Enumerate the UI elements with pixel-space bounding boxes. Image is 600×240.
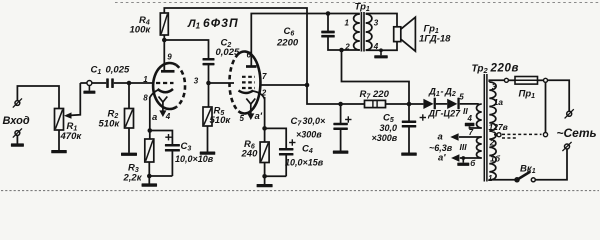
wire R3 bottom node [149,162,172,184]
label + C4 [289,142,295,144]
svg-text:470к: 470к [60,131,83,142]
node selector point 220в [504,78,508,82]
svg-text:127в: 127в [489,122,508,132]
capacitor C4 10,0x15в electrolytic [279,148,294,176]
svg-text:510к: 510к [210,115,232,126]
diode Д1 [423,98,436,110]
triode grid [156,82,174,84]
svg-text:1: 1 [488,174,493,183]
ground R3 [142,183,158,186]
svg-text:2: 2 [261,89,267,98]
pentode filament [246,99,255,105]
wire input top terminal to R1 top [17,86,59,109]
svg-text:2: 2 [489,139,495,148]
svg-text:×300в: ×300в [296,130,322,140]
wire anode junction to C2 [164,40,208,58]
node junction C6 top [326,11,331,16]
svg-text:б: б [470,159,476,168]
svg-text:220: 220 [372,89,390,100]
resistor R7 220 [365,100,386,107]
wire R4 to triode anode pin 9 [163,35,165,64]
svg-text:~6,3в: ~6,3в [429,143,453,153]
triode Л1a envelope [153,63,185,109]
ground Тр1 secondary [380,50,382,55]
svg-text:10,0×10в: 10,0×10в [175,154,214,164]
tap 127в wire [494,134,497,136]
wire R6 bottom node [265,163,287,185]
svg-text:10,0×15в: 10,0×15в [285,158,324,168]
capacitor C6 2200 [321,14,360,51]
svg-text:С6: С6 [284,26,295,38]
node junction R3/C3 bottom [147,174,152,179]
label C7 30,0х [291,116,327,128]
filament lead a pin 4 arrow [162,102,164,111]
svg-text:4: 4 [467,114,473,123]
label Тр2 220в [472,63,520,76]
node junction pin7/B+ vertical [305,83,310,88]
svg-text:III: III [460,142,468,152]
ground R6 [257,184,273,187]
pentode grids [242,77,255,88]
transformer Тр1 primary winding [354,14,360,50]
svg-text:С7: С7 [291,116,303,128]
potentiometer R1 470к [55,109,64,131]
svg-text:ДГ-Ц27: ДГ-Ц27 [428,109,462,119]
label Л1 6Ф3П [187,16,239,31]
svg-text:-: - [441,87,444,97]
svg-text:2200: 2200 [276,38,299,49]
node mains terminal 1 [567,111,572,116]
transformer Тр1 core [361,12,364,52]
ground winding III pin 6 [462,158,464,163]
wiper arrow R1 [64,83,80,119]
svg-text:×300в: ×300в [372,133,398,143]
svg-text:Вк1: Вк1 [520,164,536,176]
label + C3 [165,136,171,138]
resistor R6 240 [260,142,269,163]
transformer Тр1 secondary winding [366,14,372,50]
wire Тр1 secondary to speaker top [366,14,397,27]
node junction cathode/C4 [262,126,267,131]
svg-text:7: 7 [469,128,474,137]
label Д1-Д2 [428,87,456,99]
svg-text:30,0×: 30,0× [303,116,327,126]
ground input [11,143,24,146]
triode cathode [150,89,173,98]
wire selector drop to 127в plug [545,82,547,132]
node junction C1/R2/grid [127,81,132,86]
svg-text:100к: 100к [130,25,152,36]
node junction C7 [338,102,343,107]
svg-text:1: 1 [143,75,148,84]
wire Тр2 pin 3 to fuse [489,80,515,82]
wire junction to R2 [128,83,130,109]
wire cathode pin 8 to R3 [149,97,151,139]
svg-text:30,0: 30,0 [380,123,398,133]
svg-text:С3: С3 [181,141,192,153]
node junction winding III ground [461,156,465,160]
wire cathode pin 2 down to R6 [264,97,266,142]
svg-text:1ГД-18: 1ГД-18 [419,34,451,45]
node mains terminal 2 [565,144,570,149]
svg-text:С4: С4 [302,144,313,156]
ground winding II pin 4 [465,123,475,127]
label C1 0,025 [91,65,130,77]
node input terminal top [13,98,22,107]
pentode cathode [239,91,265,100]
capacitor C5 30,0x300в electrolytic [402,104,417,153]
capacitor C7 30,0x300в electrolytic [333,104,348,151]
capacitor C3 10,0x10в electrolytic [165,144,180,176]
svg-text:Тр1: Тр1 [355,2,370,14]
node junction C6 bottom / Тр1 pin 2 [339,48,344,53]
switch Вк1 [515,172,535,182]
resistor R4 100к [160,13,168,35]
resistor R2 510к [125,109,134,129]
resistor R3 2,2к [145,139,154,162]
node junction R6/C4 bottom [262,174,267,179]
node plug at 127в link [543,133,547,137]
ground R2 [121,153,137,156]
svg-text:3: 3 [374,19,379,28]
ground C5 [401,153,417,156]
svg-text:6: 6 [247,51,252,60]
svg-text:R7: R7 [360,89,372,101]
node junction cathode/C3 [148,128,153,133]
svg-text:1а: 1а [494,97,504,107]
label + C5 [420,117,426,119]
wire input bottom terminal to ground [16,136,18,144]
svg-text:7: 7 [262,72,267,81]
svg-text:0,025: 0,025 [106,65,130,76]
loudspeaker Гр1 1ГД-18 [394,17,416,51]
wire pentode anode pin 6 to Тр1 pin 1 [251,14,359,67]
svg-text:a: a [152,112,157,123]
wire Тр1 secondary to speaker bottom [366,42,397,51]
transformer Тр2 winding III filament 6,3в [477,137,482,158]
svg-text:510к: 510к [99,119,121,130]
resistor R5 510к [203,83,212,126]
label Тр1 [355,2,370,14]
wire winding III top arrow a [450,133,481,140]
svg-text:240: 240 [241,149,259,160]
wire R5 bottom to ground [207,126,209,152]
node junction secondary ground [379,48,383,52]
svg-text:5: 5 [240,114,245,123]
node selector plug after fuse [544,78,548,82]
svg-text:Вход: Вход [3,115,30,127]
wire fuse to mains terminal 1 [538,80,570,111]
svg-text:6Ф3П: 6Ф3П [203,16,239,30]
wire R2 bottom to ground [128,128,130,153]
label R7 220 [360,89,390,101]
wire screen grid pin 7 to B+ [262,84,308,86]
svg-text:8: 8 [143,94,148,103]
fuse Пр1 [515,77,538,85]
svg-text:4: 4 [165,112,171,121]
ground R1 [51,150,67,153]
triode filament [159,97,168,103]
wire junction to triode grid pin 1 [129,82,154,84]
capacitor C2 0,025 [203,58,215,83]
svg-text:2: 2 [344,43,350,52]
diode Д2 [447,98,459,110]
svg-text:~Сеть: ~Сеть [557,126,597,140]
svg-text:5: 5 [459,93,464,102]
capacitor C1 0,025 [92,78,129,88]
svg-text:1б: 1б [490,154,501,164]
wire B+ bus top [164,8,340,104]
svg-text:С1: С1 [91,65,102,77]
node input terminal bottom [13,128,22,137]
wire winding III bottom arrow a' [451,154,482,161]
wire filter line [341,103,409,105]
svg-text:2,2к: 2,2к [123,173,143,184]
svg-text:Пр1: Пр1 [519,89,536,101]
wire winding II pin 4 to chassis [470,126,482,128]
label + C7 [345,119,351,121]
wire Тр2 pin 1 to switch [489,179,515,181]
wire mains terminal 2 to switch [535,149,567,180]
wire Тр1 pin 2 to rectifier node [342,50,410,104]
node junction rectifier output [407,102,412,107]
wire R1 bottom to ground [58,130,60,150]
node junction C2/R5/grid [206,81,211,86]
voltage selector dashed link [502,134,542,138]
svg-text:a': a' [255,111,263,122]
ground C7 [333,151,349,154]
node shielded connector at C1 [87,81,92,86]
wire junction to C4 [265,128,287,149]
wire between diodes [436,103,447,105]
svg-text:a': a' [438,153,446,164]
triode anode plate [161,64,175,71]
svg-text:a: a [438,132,443,143]
ground R5 [200,152,216,155]
svg-text:1: 1 [345,19,350,28]
pentode anode plate [246,65,257,68]
svg-text:220в: 220в [490,63,520,75]
filament lead a' pin 5 arrow [250,104,252,114]
pentode Л1б envelope [229,51,260,113]
svg-text:Д1: Д1 [428,87,440,99]
ground connector shield [88,86,90,91]
transformer Тр2 primary winding [489,82,496,180]
svg-text:9: 9 [167,53,172,62]
wire connector to wiper [80,82,87,84]
svg-text:Л1: Л1 [187,18,201,31]
wire rectifier to diode [409,103,423,105]
svg-text:Д2: Д2 [444,87,456,99]
svg-text:3: 3 [194,77,199,86]
svg-text:3: 3 [492,83,497,92]
svg-text:Тр2: Тр2 [472,64,489,76]
wire junction to C3 [150,131,173,146]
node junction R4/anode/C2 [162,38,167,43]
transformer Тр2 winding II high voltage [477,104,482,128]
node tap 127в [497,133,501,137]
transformer Тр2 core [484,74,487,182]
wire junction to pentode grid pin 3 [209,82,235,84]
wire Д2 to Тр2 winding II pin 5 [460,103,479,105]
